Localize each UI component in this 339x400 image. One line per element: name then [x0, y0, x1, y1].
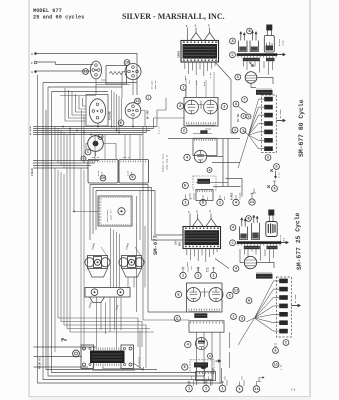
pin 2 below box: [181, 128, 187, 134]
T1 secondary leads bottom: [185, 62, 215, 76]
pin E 60cy: [182, 182, 188, 188]
stems above pin row 25cy: [182, 267, 216, 272]
svg-text:3: 3: [241, 318, 243, 322]
svg-text:1: 1: [182, 87, 184, 91]
wires around V13 V14: [98, 111, 145, 127]
riser verticals middle bottom: [197, 368, 205, 385]
svg-text:11: 11: [234, 290, 239, 294]
svg-text:11: 11: [274, 364, 279, 368]
output arrow B+ 60cy: [276, 120, 285, 122]
svg-text:GND UP: GND UP: [154, 80, 157, 89]
pin 1: [195, 272, 201, 278]
hatched strip under bus right: [266, 58, 275, 61]
svg-text:C: C: [285, 342, 287, 346]
svg-text:SM-677 60 Cycle: SM-677 60 Cycle: [298, 99, 305, 157]
risers right of amp box: [137, 127, 190, 321]
tube V3: [185, 100, 199, 114]
svg-text:12: 12: [135, 100, 139, 104]
pin B 25cy: [246, 216, 252, 222]
svg-text:GRN: GRN: [186, 261, 189, 266]
pin 11: [249, 199, 255, 205]
svg-text:1: 1: [243, 115, 245, 118]
svg-text:RF AMP: RF AMP: [147, 110, 150, 119]
wire from pin 11 bottom up right: [257, 378, 263, 382]
svg-text:2: 2: [131, 176, 133, 180]
capacitor can C7: [264, 130, 273, 135]
pin 10 top right of coil box: [124, 60, 130, 66]
wire from terminal C: [37, 62, 93, 65]
tube V12 socket: [125, 64, 141, 80]
resistor R2 dashed box: [193, 176, 216, 190]
svg-text:ant sw: ant sw: [92, 156, 100, 159]
bus output arrow: [277, 54, 285, 56]
svg-text:YEL: YEL: [188, 79, 191, 84]
pin 1 small mid: [241, 114, 246, 119]
wire riser right 25cy: [229, 332, 231, 368]
pin 1 pair b: [240, 128, 246, 134]
pin C below box 25cy: [174, 315, 180, 321]
SM-677 left label placeholder: [146, 127, 148, 133]
resistor R1 blob: [200, 130, 207, 134]
terminal bus bar 60cy: [237, 53, 277, 56]
capacitor can C17: [279, 320, 288, 325]
arrow into rectifier tube: [249, 62, 254, 67]
hatched strip under bus right 25cy: [267, 246, 278, 249]
X1 pointer: [101, 247, 107, 256]
rectifier can V6 25cy: [266, 222, 277, 237]
tube V15 socket with dark center: [88, 136, 104, 152]
wire stub left block to mid: [226, 179, 243, 197]
rectifier tube V7 top view 25cy: [244, 256, 256, 268]
pin 11 bottom right: [273, 361, 279, 367]
svg-text:C: C: [231, 54, 233, 58]
pin C 25cy: [230, 240, 236, 246]
ticks right of pin 11: [251, 193, 254, 195]
wire loop around amp box 2: [93, 188, 183, 241]
wire T1 to rectifier diagonal: [215, 62, 231, 80]
T3 comb top: [94, 348, 121, 350]
pin 9 small: [207, 168, 212, 173]
capacitor can C6: [264, 121, 273, 126]
svg-text:1.5V: 1.5V: [280, 364, 283, 370]
capacitor block dashed box 60cy: [262, 95, 277, 153]
feed horizontal y138: [168, 138, 240, 140]
capacitor can C3: [264, 97, 273, 102]
pin 5 left of V2: [235, 74, 241, 80]
input terminal C: [34, 61, 37, 64]
pin 5 under cap block: [274, 164, 280, 170]
pin 11 near cap block 25cy: [233, 287, 239, 293]
pin 4 left of V5: [184, 154, 190, 160]
rectifier tube V2 top view: [245, 72, 257, 84]
svg-text:RED: RED: [197, 266, 200, 271]
pin 10 under T1 left: [180, 85, 186, 91]
tube V11 socket: [90, 61, 101, 79]
pin 1: [236, 386, 243, 393]
main AC bus line 3: [34, 366, 89, 368]
cap C11 lead arrows: [253, 215, 255, 223]
AF transformer box B2: [119, 159, 149, 183]
pin 2 left of box: [177, 103, 183, 109]
capacitor block dashed box 25cy: [277, 277, 292, 337]
rectifier bottle V1: [264, 36, 274, 53]
wire V2 loop down: [251, 83, 256, 88]
terminal bar under drivers: [85, 288, 130, 298]
fan wires to capacitor block 60cy: [249, 99, 259, 149]
comb terminals bottom of twin box: [187, 122, 216, 124]
cap C10 lead arrows: [241, 218, 243, 227]
pin C left of V15: [85, 149, 91, 155]
power transformer T3 dark core: [90, 351, 125, 364]
svg-text:9: 9: [209, 355, 211, 358]
beaker cap C10: [240, 227, 248, 240]
main AC bus line 1: [34, 346, 97, 348]
pin 4 right floater: [272, 186, 278, 192]
wire pin4 diagonal: [239, 107, 248, 114]
wire V12 bottom: [122, 72, 133, 99]
X1 bracket: [88, 269, 108, 278]
bar bracket: [90, 297, 105, 303]
left bundle lower verticals: [55, 168, 146, 368]
screw circle bar right: [117, 289, 124, 296]
svg-text:1: 1: [234, 129, 236, 133]
bottom box 25cy: [196, 372, 216, 381]
svg-text:SM-677: SM-677: [152, 235, 159, 255]
wire V5 right to column: [207, 157, 240, 163]
capacitor can C12: [279, 279, 288, 284]
svg-text:RED: RED: [195, 80, 198, 85]
tube V13 socket: [89, 99, 105, 123]
pin 20 in B2: [130, 174, 136, 180]
svg-text:10: 10: [101, 177, 105, 181]
pin E small left: [81, 156, 86, 161]
svg-text:10: 10: [99, 136, 103, 139]
pin A: [230, 38, 236, 44]
field bus line 4: [33, 167, 88, 169]
beaker cap C2: [250, 41, 259, 52]
speaker driver X2: [122, 256, 142, 269]
pin 9 small 25cy: [208, 354, 213, 359]
pin 4 near cap block: [233, 101, 239, 107]
svg-text:C: C: [231, 242, 233, 246]
wires under top tubes: [60, 79, 130, 96]
bottom pin row: pin 1: [186, 385, 193, 392]
pin 4 25cy top: [230, 225, 236, 231]
stems above bottom pin row: [188, 380, 257, 386]
fuse link triangles above T1: [191, 33, 216, 41]
svg-text:1: 1: [232, 316, 234, 320]
cap C2 lead arrows: [251, 31, 253, 41]
pin 1 right of top edge: [146, 95, 151, 100]
wire top edge from terminal A1: [37, 54, 137, 96]
verticals through driver area: [111, 228, 120, 288]
pin C under cap block 25cy: [283, 340, 289, 346]
wire wrap bottom 5: [46, 110, 157, 370]
pin 1 pair a: [232, 127, 238, 133]
beaker cap C11: [252, 223, 260, 240]
pin 1 near fan: [231, 314, 237, 320]
grid cap pin on V15: [98, 135, 103, 140]
bus output arrow 25cy: [281, 242, 288, 244]
wire from T1 diagonal down: [231, 80, 236, 134]
field bus line 3: [33, 165, 91, 167]
pin 4: [233, 199, 239, 205]
T1 leads continue to twin box: [186, 72, 214, 98]
svg-text:POWER: POWER: [238, 192, 241, 200]
tube V8: [187, 288, 201, 302]
svg-text:2.5V: 2.5V: [209, 72, 212, 78]
X2 bracket: [122, 269, 142, 278]
wire from terminal A2: [37, 70, 91, 72]
pin 11: [253, 386, 260, 393]
beaker cap C1: [239, 41, 248, 52]
T2 secondary leads bottom: [187, 249, 217, 263]
wires left block to twin box 60cy: [154, 98, 185, 129]
svg-text:+RED GND UP: +RED GND UP: [166, 154, 169, 170]
svg-text:TR YEL: TR YEL: [237, 113, 240, 122]
pin 3 near fan: [239, 316, 245, 322]
fuse link triangles above T2: [193, 219, 217, 227]
verticals between V13 and V14: [112, 90, 122, 133]
svg-text:11: 11: [250, 201, 255, 205]
left verticals field to transformer: [81, 168, 84, 352]
wire wrap bottom 2: [48, 87, 205, 376]
feed horizontals lower: [196, 182, 241, 186]
tube V4: [204, 100, 218, 114]
pin 4 left of V10: [185, 341, 191, 347]
svg-text:PRI: PRI: [179, 241, 182, 246]
svg-text:1: 1: [148, 97, 150, 100]
T2 leads continue toward pin row: [188, 266, 208, 272]
input terminal A1: [34, 52, 37, 55]
capacitor can C4: [264, 105, 273, 110]
svg-text:11: 11: [83, 71, 87, 75]
wires mid verticals to T3: [106, 297, 115, 334]
wires descending from bus: [244, 58, 273, 75]
pin 11 left of V11: [83, 69, 89, 75]
power transformer T3 left end plate: [81, 345, 94, 369]
resistor R4 dashed box: [190, 360, 214, 373]
output arrow B+ 25cy: [291, 305, 300, 307]
diagonal pointer at T3: [133, 363, 144, 370]
power transformer T1 (60 cycle): [181, 41, 219, 63]
horizontal bus line 3: [33, 130, 150, 132]
capacitor can C15: [279, 304, 288, 309]
tube V9: [209, 288, 223, 302]
wires V15 connections: [86, 144, 116, 160]
power transformer T3 right end plate: [121, 345, 134, 369]
svg-text:ant sw: ant sw: [123, 156, 131, 159]
power transformer T2 leads top: [190, 214, 211, 227]
wire T2 to rectifier diagonal: [215, 259, 229, 269]
arrow down 6.3V: [275, 171, 277, 179]
svg-text:40MA: 40MA: [282, 40, 285, 46]
wire wrap bottom 3: [52, 92, 197, 373]
power transformer T1 leads top: [188, 28, 210, 41]
verticals right of X2: [128, 226, 145, 288]
svg-text:BLK: BLK: [205, 267, 208, 272]
pin C right of box 25cy: [227, 292, 233, 298]
pin E left of box 25cy: [175, 291, 181, 297]
speaker driver X1: [88, 256, 108, 269]
wire bundle to amp box: [74, 211, 98, 213]
pin 5: [200, 199, 206, 205]
capacitor can C18: [279, 329, 288, 334]
capacitor can C5: [264, 113, 273, 118]
fan root wire: [238, 131, 249, 169]
pin 1: [203, 385, 210, 392]
bottle plate blob: [266, 46, 273, 51]
T3 bottom lead wraps: [93, 331, 140, 371]
capacitor can C14: [279, 295, 288, 300]
svg-text:RADIO B+ PICK: RADIO B+ PICK: [162, 153, 165, 172]
svg-text:B+RED: B+RED: [230, 192, 233, 200]
svg-text:2: 2: [183, 130, 185, 134]
screw circle bar left: [91, 289, 98, 296]
power transformer T2 (25 cycle): [183, 227, 221, 249]
pin 8 small mid: [246, 114, 251, 119]
comb terminals bottom twin box 25cy: [189, 309, 220, 311]
ticks near pin 5: [274, 344, 277, 347]
input terminal A2: [34, 70, 37, 73]
svg-text:MODEL 677: MODEL 677: [33, 8, 62, 14]
svg-text:1: 1: [242, 130, 244, 134]
svg-text:B W GY: B W GY: [158, 125, 161, 134]
pin 1: [217, 199, 223, 205]
horizontal bus line 4: [33, 132, 147, 134]
pin B: [247, 28, 253, 34]
X2 pointer: [135, 247, 141, 256]
svg-text:4: 4: [235, 103, 237, 107]
svg-text:d: d: [190, 198, 193, 199]
second box 60cy: [193, 138, 217, 155]
wire loop around amp box 1: [90, 185, 187, 313]
horizontal bus line 1: [33, 126, 157, 128]
capacitor can C16: [279, 312, 288, 317]
wire bus down to V7 left: [240, 249, 244, 263]
cross mark right floater: [267, 185, 270, 188]
horizontal bus line 5: [33, 134, 143, 136]
wire wrap bottom 4: [38, 75, 222, 383]
fan wires to capacitor block 25cy: [255, 281, 274, 331]
pin row 60cy: pin 1: [182, 199, 188, 205]
pin E lower 25cy: [182, 364, 188, 370]
riser detail: [137, 191, 141, 241]
svg-text:MFD: MFD: [283, 237, 286, 242]
pin A near cap block 25cy: [246, 298, 252, 304]
svg-text:VOLUME: VOLUME: [109, 111, 112, 120]
svg-text:E: E: [120, 122, 122, 126]
wires descending from bus 25cy: [245, 246, 274, 263]
svg-text:5: 5: [237, 76, 239, 80]
wires bar down to T3: [97, 297, 122, 348]
svg-text:6.3V: 6.3V: [278, 172, 281, 178]
svg-text:9: 9: [209, 169, 211, 172]
amplifier inner box: [98, 196, 132, 226]
capacitor can C13: [279, 287, 288, 292]
pin 7 near cap block: [242, 97, 248, 103]
tick above right floater: [273, 181, 276, 186]
pin 5 bottom right: [273, 348, 279, 354]
svg-text:5: 5: [275, 166, 277, 170]
svg-text:GRN: GRN: [184, 75, 187, 80]
terminal block under V7: [256, 274, 273, 279]
staircase corners into bus: [65, 88, 86, 121]
capacitor can C9: [264, 146, 273, 151]
left vertical bundle upper: [55, 127, 154, 333]
wire V2 to right: [256, 78, 273, 85]
small cap blob under R4: [201, 366, 207, 369]
svg-text:C-2: C-2: [291, 389, 296, 392]
bus junction dots: [62, 126, 134, 136]
capacitor can C8: [264, 138, 273, 143]
twin tube box 60cy: [184, 98, 218, 127]
svg-text:FIELD: FIELD: [31, 168, 34, 176]
resistor R4 blob: [194, 362, 208, 367]
left inner verticals to field bus: [82, 110, 85, 163]
hatched strip under bus left 25cy: [244, 246, 260, 249]
field bus line 2: [33, 162, 95, 164]
svg-text:5: 5: [274, 350, 276, 354]
field bus line 1: [33, 160, 99, 162]
driver tube V10: [195, 338, 207, 350]
socket B in amp box: [118, 208, 125, 215]
resistor R3 blob: [194, 313, 207, 318]
tube V14 socket: [125, 103, 141, 119]
stems above pin row 60cy: [186, 193, 253, 200]
pin C: [230, 52, 236, 58]
comb left side of amp box: [99, 199, 102, 223]
svg-text:6: 6: [267, 157, 269, 161]
pin 1: [210, 272, 216, 278]
pin 6 under cap block: [265, 155, 271, 161]
coil box between tubes: [106, 66, 127, 85]
fan root wires 25cy: [238, 318, 255, 345]
twin tube box 25cy: [187, 283, 223, 312]
svg-text:C: C: [87, 151, 89, 155]
hatched strip under bus left: [243, 58, 260, 61]
mid box 25cy: [189, 321, 224, 332]
cross mark: [270, 169, 273, 172]
svg-text:8: 8: [248, 116, 250, 119]
vertical feed wires right of 60cy unit: [223, 139, 228, 187]
main AC bus line 2: [34, 356, 83, 358]
wire loop around amp box 3: [96, 191, 183, 236]
resistor squiggle in coil box: [109, 72, 123, 75]
lower box 60cy: [196, 190, 213, 201]
T3 comb bottom: [94, 364, 121, 366]
svg-text:300Ω: 300Ω: [178, 51, 181, 58]
terminal bus bar 25cy: [237, 241, 281, 244]
wire V7 to right: [257, 263, 274, 269]
AF transformer box B1: [88, 159, 118, 183]
coupling between tubes 25cy: [201, 288, 209, 297]
box around tube V13: [86, 95, 108, 127]
resistor R2 blob: [197, 179, 210, 184]
wire pin to twin box: [185, 90, 187, 98]
svg-text:BLK: BLK: [203, 81, 206, 86]
pin 3 right of box: [221, 103, 227, 109]
pin row above twin box 25cy: pin 1: [180, 272, 186, 278]
terminal block under rectifier: [256, 90, 273, 95]
wire under R1: [193, 129, 212, 134]
small arrow right of R4: [216, 360, 222, 362]
horizontal bus line 2: [33, 128, 154, 130]
pin 1: [219, 385, 226, 392]
wire wrap bottom outer: [43, 83, 213, 380]
pin E mid left block: [118, 120, 124, 126]
wires down from mid box: [197, 332, 221, 385]
